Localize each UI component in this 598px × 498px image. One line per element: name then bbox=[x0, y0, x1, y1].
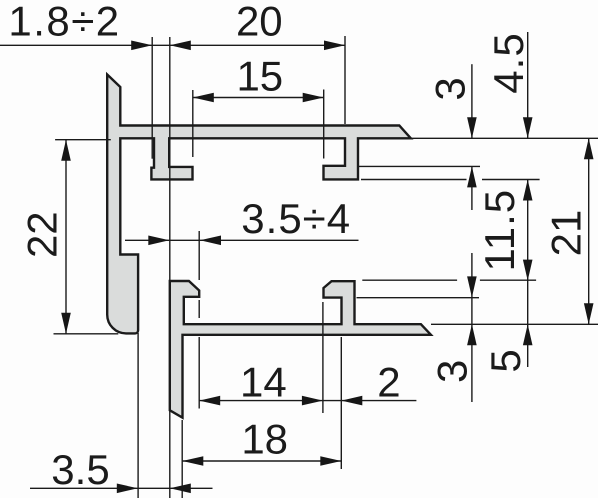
svg-text:3: 3 bbox=[429, 360, 476, 383]
svg-text:11.5: 11.5 bbox=[476, 189, 523, 272]
extension line bar right bottom bbox=[137, 333, 139, 498]
extension line foot bottom right part2 bbox=[482, 179, 540, 181]
dim line 21 bbox=[588, 138, 590, 324]
svg-text:3.5÷4: 3.5÷4 bbox=[241, 195, 351, 242]
dim line 22 bbox=[65, 140, 67, 334]
dim line 3.5 bottom bbox=[30, 487, 213, 489]
arrow 22 bottom bbox=[61, 313, 71, 334]
arrow 11.5 top bbox=[523, 180, 533, 201]
arrow 21 top bbox=[584, 138, 594, 159]
arrow 1.8 left bbox=[131, 41, 152, 51]
extension line 22 bottom bbox=[54, 333, 119, 335]
arrow 14 left bbox=[199, 396, 220, 406]
extension line 1.8 left bbox=[151, 37, 153, 159]
arrow 3 top up bbox=[467, 166, 477, 187]
svg-text:1.8÷2: 1.8÷2 bbox=[8, 0, 120, 45]
arrow 3.5 right bbox=[170, 484, 191, 494]
upper profile fill bbox=[107, 75, 411, 334]
arrow 20 right bbox=[324, 41, 345, 51]
arrow 22 top bbox=[61, 140, 71, 161]
dim line 3 right top bbox=[471, 64, 473, 138]
svg-text:2: 2 bbox=[377, 359, 400, 406]
upper profile outline bbox=[107, 75, 411, 334]
svg-text:18: 18 bbox=[241, 415, 288, 462]
extension line head top right left part bbox=[362, 279, 457, 281]
extension line 20 right bbox=[344, 36, 346, 124]
arrow 21 bottom bbox=[584, 303, 594, 324]
arrow 3.5-4 right bbox=[200, 236, 221, 246]
arrow 15 right bbox=[303, 93, 324, 103]
svg-text:14: 14 bbox=[240, 358, 287, 405]
arrow 18 left bbox=[182, 456, 203, 466]
arrow 14 right bbox=[302, 396, 323, 406]
extension line 22 top bbox=[55, 139, 111, 141]
dim line 1.8-2 and 20 bbox=[0, 44, 345, 46]
arrow 3 bottom up bbox=[467, 324, 477, 345]
extension line long vertical bbox=[169, 37, 171, 498]
extension line foot bottom right bbox=[361, 179, 467, 181]
extension line 14 left lower bbox=[198, 337, 200, 409]
extension line head bottom right bbox=[357, 297, 480, 299]
extension line lower flange top right bbox=[431, 323, 598, 325]
extension line 14 left upper bbox=[198, 231, 200, 280]
arrow 3.5-4 left bbox=[148, 236, 169, 246]
dim line 15 bbox=[193, 97, 324, 99]
arrow 3 top down bbox=[467, 117, 477, 138]
svg-text:3: 3 bbox=[427, 77, 474, 100]
dim line 4.5 bbox=[527, 32, 529, 138]
arrow 3 bottom down bbox=[467, 276, 477, 297]
svg-text:4.5: 4.5 bbox=[485, 32, 532, 93]
svg-text:22: 22 bbox=[19, 211, 66, 258]
arrow 5 up bbox=[523, 324, 533, 345]
arrow 15 left bbox=[193, 93, 214, 103]
arrow 18 right bbox=[320, 456, 341, 466]
extension line flange bottom right bbox=[411, 137, 598, 139]
svg-text:3.5: 3.5 bbox=[51, 446, 109, 493]
svg-text:20: 20 bbox=[236, 0, 283, 45]
arrow 3.5 left bbox=[117, 484, 138, 494]
dim line 3 top partner bbox=[471, 166, 473, 210]
arrow 2 right bbox=[341, 396, 362, 406]
extension line 14 left mid bbox=[198, 300, 200, 318]
extension line 18 left bbox=[181, 420, 183, 498]
dim line 11.5 and 5 bbox=[527, 180, 529, 368]
svg-text:15: 15 bbox=[236, 53, 283, 100]
lower profile fill bbox=[170, 281, 431, 418]
extension line foot top right bbox=[359, 165, 481, 167]
arrow 4.5 down bbox=[523, 117, 533, 138]
dim line 3.5-4 bbox=[125, 239, 359, 241]
svg-text:5: 5 bbox=[482, 349, 529, 372]
dim line 3 bottom right bbox=[471, 253, 473, 402]
svg-text:21: 21 bbox=[542, 210, 589, 257]
arrow 20 left bbox=[170, 41, 191, 51]
arrow 11.5 bottom bbox=[523, 260, 533, 281]
lower profile outline bbox=[170, 281, 431, 418]
extension line 15 left bbox=[192, 90, 194, 157]
extension line head top right right part bbox=[480, 279, 536, 281]
dim line 18 bbox=[182, 460, 341, 462]
extension line 2 right / 18 right bbox=[340, 337, 342, 469]
dim line 14 and 2 bbox=[199, 400, 416, 402]
extension line 14 right bbox=[322, 302, 324, 413]
extension line 15 right bbox=[323, 90, 325, 159]
